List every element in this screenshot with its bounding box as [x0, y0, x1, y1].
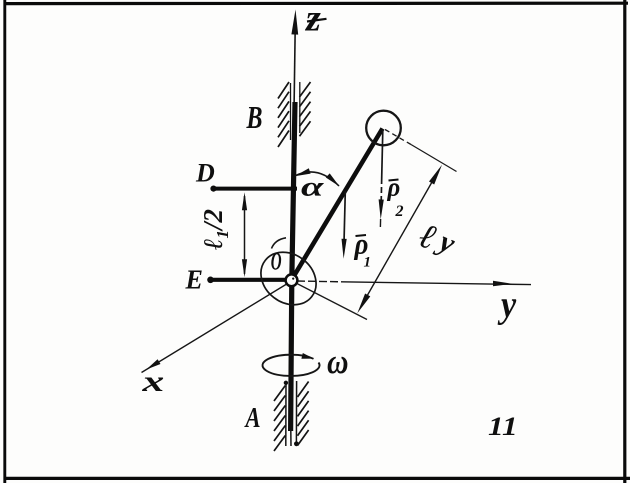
svg-text:ρ: ρ	[387, 173, 401, 202]
svg-text:11: 11	[488, 412, 518, 441]
svg-text:B: B	[246, 101, 263, 136]
svg-text:α: α	[301, 172, 325, 202]
svg-text:ω: ω	[327, 343, 349, 382]
svg-text:O: O	[271, 249, 282, 276]
svg-text:y: y	[497, 283, 517, 325]
svg-text:D: D	[195, 159, 215, 188]
svg-text:2: 2	[395, 203, 404, 220]
svg-text:E: E	[185, 264, 203, 295]
svg-text:1: 1	[364, 255, 372, 271]
svg-text:x: x	[141, 365, 164, 398]
svg-text:ℓ1/2: ℓ1/2	[198, 209, 232, 250]
svg-text:A: A	[244, 401, 261, 433]
